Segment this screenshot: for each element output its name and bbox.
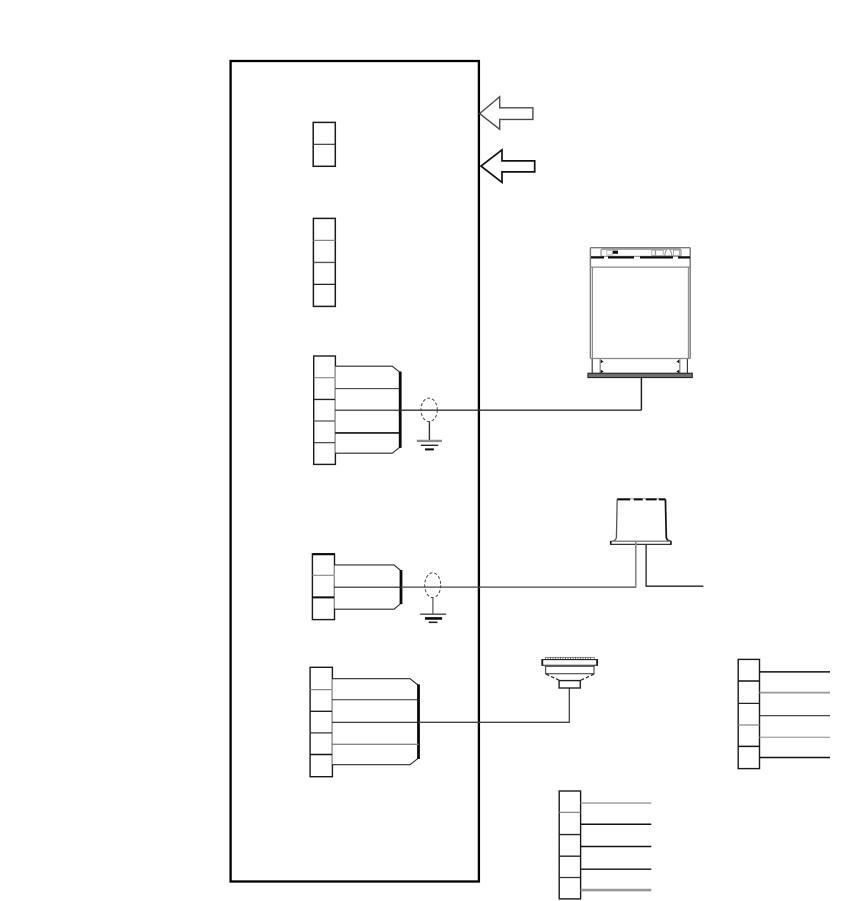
- connector E housing: [332, 679, 418, 765]
- appliance right leg: [676, 359, 687, 373]
- arrow 1 (top input arrow): [480, 97, 533, 130]
- speaker: [542, 657, 598, 688]
- wire from connector C to appliance: [400, 409, 641, 411]
- connector D housing: [335, 565, 402, 609]
- connector F wires: [760, 672, 831, 758]
- ground symbol below oval C: [417, 422, 442, 450]
- ferrite oval on wire C: [421, 398, 437, 421]
- arrow 2 (second input arrow): [481, 150, 535, 183]
- ground symbol below oval D: [420, 598, 446, 623]
- appliance left leg: [592, 359, 603, 373]
- connector C housing: [335, 366, 400, 453]
- pump (small device): [610, 499, 671, 545]
- ferrite oval on wire D: [425, 573, 441, 598]
- wire from connector D to pump: [401, 586, 636, 588]
- wire pump to wire D (gray): [635, 542, 637, 588]
- connector D (3-pin with housing): [312, 554, 334, 620]
- appliance base bar: [588, 373, 692, 377]
- wire from appliance down to wire C: [640, 378, 642, 411]
- connector A (2-pin): [313, 122, 335, 166]
- connector C (5-pin with housing): [314, 356, 336, 464]
- connector F (right 5-pin): [738, 659, 759, 768]
- control unit box: [231, 61, 479, 882]
- wire pump to right (black L): [646, 545, 703, 587]
- wire from connector E to speaker: [419, 688, 570, 722]
- connector G wires: [581, 803, 652, 890]
- connector E (5-pin with housing): [310, 667, 332, 776]
- connector B (4-pin): [313, 218, 335, 306]
- connector G (bottom 5-pin): [559, 791, 580, 899]
- appliance (dishwasher) top right: [590, 248, 690, 359]
